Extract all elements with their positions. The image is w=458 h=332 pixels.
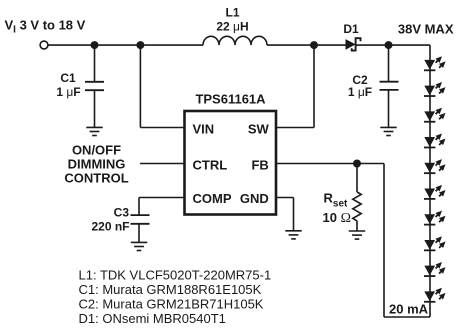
- svg-text:C1: Murata GRM188R61E105K: C1: Murata GRM188R61E105K: [79, 282, 262, 297]
- wire C1 lower: [94, 90, 96, 127]
- wire FB horizontal: [276, 163, 384, 165]
- ground C3: [131, 242, 147, 250]
- component list: [79, 268, 272, 326]
- LED 6: [424, 185, 446, 199]
- svg-text:GND: GND: [240, 191, 269, 206]
- inductor L1: [203, 36, 267, 45]
- LED 3: [424, 108, 446, 122]
- svg-text:TPS61161A: TPS61161A: [195, 92, 266, 107]
- LED 7: [424, 211, 446, 225]
- ground GND pin: [285, 231, 301, 239]
- LED 4: [424, 133, 446, 147]
- LED 2: [424, 82, 446, 96]
- wire GND pin horizontal: [276, 197, 294, 199]
- svg-text:D1: ONsemi MBR0540T1: D1: ONsemi MBR0540T1: [79, 311, 226, 326]
- node junction C2: [385, 41, 393, 49]
- capacitor C1: [85, 82, 104, 90]
- capacitor C3: [131, 215, 150, 224]
- LED 8: [424, 236, 446, 250]
- wire LED string bottom stub: [429, 302, 431, 317]
- svg-text:20 mA: 20 mA: [389, 302, 429, 317]
- svg-text:C2: Murata GRM21BR71H105K: C2: Murata GRM21BR71H105K: [79, 297, 264, 312]
- LED 9: [424, 262, 446, 276]
- wire SW branch horizontal: [276, 127, 314, 129]
- ground C2: [380, 127, 396, 135]
- wire diode to corner: [357, 44, 431, 46]
- svg-text:38V MAX: 38V MAX: [398, 22, 454, 37]
- svg-text:220 nF: 220 nF: [91, 219, 129, 233]
- wire inductor to diode: [267, 44, 346, 46]
- wire top rail input to inductor: [48, 44, 204, 46]
- wire COMP horizontal: [139, 197, 184, 199]
- wire GND pin vertical: [293, 198, 295, 231]
- wire CTRL: [140, 163, 184, 165]
- svg-text:ON/OFF: ON/OFF: [72, 143, 121, 158]
- LED 5: [424, 159, 446, 173]
- wire Rset lower: [356, 221, 358, 231]
- svg-text:COMP: COMP: [193, 191, 232, 206]
- svg-text:1 μF: 1 μF: [348, 85, 372, 99]
- svg-text:22 μH: 22 μH: [216, 20, 248, 34]
- wire VIN branch vertical: [139, 45, 141, 127]
- capacitor C2: [380, 82, 399, 90]
- svg-text:L1: L1: [225, 6, 239, 20]
- svg-text:CTRL: CTRL: [193, 158, 228, 173]
- LED 10: [424, 288, 446, 302]
- svg-text:10 Ω: 10 Ω: [323, 210, 351, 226]
- ground C1: [86, 127, 102, 135]
- node junction C1: [91, 41, 99, 49]
- svg-text:VIN: VIN: [193, 122, 215, 137]
- node junction VIN: [136, 41, 144, 49]
- wire FB vertical: [383, 164, 385, 318]
- ground Rset: [349, 231, 365, 239]
- resistor Rset: [353, 192, 361, 221]
- svg-text:D1: D1: [343, 22, 359, 36]
- node junction Rset: [353, 160, 361, 168]
- wire C2 branch upper: [388, 45, 390, 82]
- diode D1: [346, 38, 361, 50]
- wire C3 lower: [138, 224, 140, 243]
- svg-text:C3: C3: [114, 205, 130, 219]
- svg-text:SW: SW: [248, 122, 270, 137]
- wire LED string vertical: [429, 45, 431, 302]
- wire C1 branch upper: [94, 45, 96, 82]
- label ON/OFF DIMMING CONTROL: [64, 143, 128, 186]
- svg-text:C1: C1: [60, 71, 76, 85]
- svg-text:DIMMING: DIMMING: [68, 156, 126, 171]
- svg-text:L1: TDK VLCF5020T-220MR75-1: L1: TDK VLCF5020T-220MR75-1: [79, 268, 272, 283]
- wire COMP vertical: [138, 198, 140, 216]
- svg-text:CONTROL: CONTROL: [64, 170, 128, 185]
- input terminal circle: [40, 41, 48, 49]
- svg-text:1 μF: 1 μF: [56, 85, 80, 99]
- node junction SW: [310, 41, 318, 49]
- wire SW branch vertical: [313, 45, 315, 127]
- wire VIN branch horizontal: [140, 127, 184, 129]
- svg-text:FB: FB: [251, 158, 268, 173]
- LED 1: [424, 56, 446, 70]
- wire C2 lower: [388, 90, 390, 128]
- wire bottom return: [384, 316, 430, 318]
- wire Rset upper: [356, 164, 358, 193]
- IC U1 TPS61161A box: [185, 111, 277, 215]
